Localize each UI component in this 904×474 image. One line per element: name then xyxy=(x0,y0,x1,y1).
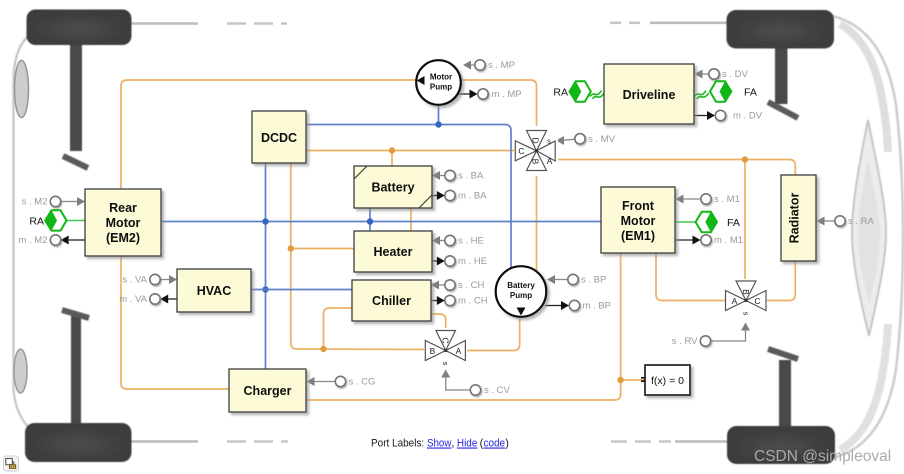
port s.BA xyxy=(432,170,484,181)
svg-text:s . M1: s . M1 xyxy=(714,194,740,205)
wire orange motor pump right to valve MV D xyxy=(461,80,537,131)
connector RA gem at rear motor xyxy=(29,210,66,230)
wire orange DCDC bottom to valve CV B xyxy=(291,163,426,350)
valve MV triangle D xyxy=(527,131,547,151)
wire orange rear-motor loop (motor pump left to charger left) xyxy=(121,80,416,389)
valve MV (4-way, near motor pump) xyxy=(514,126,558,176)
strut front-left xyxy=(63,43,88,168)
model browser badge icon xyxy=(4,456,19,471)
port s.HE xyxy=(432,235,484,246)
svg-text:s . CG: s . CG xyxy=(349,377,376,388)
svg-text:s . RA: s . RA xyxy=(848,216,875,227)
svg-text:A: A xyxy=(547,156,553,166)
svg-text:,: , xyxy=(451,438,454,450)
port s.CG xyxy=(307,376,376,387)
car body outline left (rear) xyxy=(14,29,48,442)
svg-text:B: B xyxy=(430,346,436,356)
BLOCKS xyxy=(29,60,816,412)
svg-text:s . BA: s . BA xyxy=(458,171,484,182)
car body outline right (front) xyxy=(828,15,903,459)
side pillar shape xyxy=(852,120,886,336)
svg-text:Chiller: Chiller xyxy=(372,294,411,308)
svg-text:m . CH: m . CH xyxy=(458,296,488,307)
svg-text:m . M1: m . M1 xyxy=(714,235,743,246)
port m.MP xyxy=(458,89,522,100)
svg-text:m . VA: m . VA xyxy=(119,294,147,305)
block Rear Motor (EM2) xyxy=(85,189,161,256)
port s.CV xyxy=(441,370,510,397)
block Chiller xyxy=(352,280,431,321)
wheel rear-right xyxy=(727,426,835,464)
PORTS xyxy=(18,60,874,396)
port s.VA xyxy=(122,274,177,285)
port m.M1 xyxy=(675,235,743,246)
block HVAC xyxy=(177,269,251,312)
svg-text:m . BA: m . BA xyxy=(458,191,487,202)
svg-text:Rear: Rear xyxy=(109,201,137,215)
wire green rear motor RA link xyxy=(66,220,85,222)
axle line rear-right xyxy=(611,440,728,443)
junction dot orange at radiator branch xyxy=(742,156,748,162)
wire orange front motor bottom to charger right xyxy=(306,253,621,400)
wire orange valve RV C to radiator bottom xyxy=(764,261,796,301)
svg-text:s: s xyxy=(547,137,551,146)
junction dot blue bus x370 xyxy=(367,218,373,224)
valve RV (3-way, near radiator) xyxy=(725,279,767,319)
wheel rear-left xyxy=(25,423,132,462)
wire green driveline FA zigzag xyxy=(695,91,709,100)
wire orange branch to chiller left xyxy=(324,308,353,349)
port m.BA xyxy=(432,190,487,201)
block Heater xyxy=(354,231,432,272)
svg-text:C: C xyxy=(441,337,451,343)
FOOTER xyxy=(4,438,892,472)
port s.CH xyxy=(431,280,485,291)
svg-text:s . HE: s . HE xyxy=(458,236,484,247)
port m.CH xyxy=(431,295,488,306)
svg-text:Battery: Battery xyxy=(507,281,535,290)
svg-text:s: s xyxy=(742,312,751,316)
svg-text:m . DV: m . DV xyxy=(733,111,763,122)
wire orange branch to heater left xyxy=(291,248,354,250)
svg-text:m . M2: m . M2 xyxy=(18,235,47,246)
block Battery xyxy=(354,166,432,208)
svg-text:s . RV: s . RV xyxy=(672,336,698,347)
valve MV triangle A xyxy=(537,141,556,161)
svg-text:Driveline: Driveline xyxy=(623,88,676,102)
svg-text:s . VA: s . VA xyxy=(122,275,147,286)
wire orange branch to fx block xyxy=(621,379,645,381)
port s.RA xyxy=(817,216,875,227)
svg-text:Radiator: Radiator xyxy=(788,193,802,244)
port s.MP xyxy=(463,60,515,71)
wire orange valve MV B to battery pump top xyxy=(536,171,538,273)
valve CV triangle C xyxy=(436,331,456,351)
port m.VA xyxy=(119,294,177,305)
svg-text:(EM1): (EM1) xyxy=(621,229,655,243)
svg-text:Pump: Pump xyxy=(510,291,532,300)
wire orange valve CV A to battery pump bottom xyxy=(465,318,519,351)
valve CV (3-way, below chiller) xyxy=(424,328,467,369)
port s.M1 xyxy=(676,194,740,205)
valve CV triangle A xyxy=(446,341,466,361)
port m.DV xyxy=(694,110,763,121)
wire green driveline RA zigzag xyxy=(590,91,604,100)
svg-text:s . MP: s . MP xyxy=(488,60,515,71)
connector RA gem at driveline xyxy=(553,81,590,101)
block Front Motor (EM1) xyxy=(601,187,675,253)
port s.MV xyxy=(556,134,616,145)
pump Motor Pump xyxy=(416,60,461,105)
axle line front-left xyxy=(131,22,287,25)
svg-text:s . CV: s . CV xyxy=(484,385,511,396)
svg-text:Hide: Hide xyxy=(457,438,478,450)
svg-text:f(x) = 0: f(x) = 0 xyxy=(651,375,684,387)
valve RV triangle A xyxy=(726,291,747,311)
wheel front-right xyxy=(727,10,835,49)
svg-text:D: D xyxy=(531,137,541,143)
windshield arc lower xyxy=(840,324,888,450)
svg-text:Charger: Charger xyxy=(244,384,292,398)
block Driveline xyxy=(604,64,694,124)
strut front-right xyxy=(768,46,798,118)
windshield arc upper xyxy=(840,24,888,152)
port s.BP xyxy=(547,274,606,285)
svg-text:A: A xyxy=(732,296,738,306)
junction dot orange at chiller branch xyxy=(320,346,326,352)
svg-text:C: C xyxy=(518,146,524,156)
strut rear-left xyxy=(62,310,89,424)
wire orange branch to valve RV B xyxy=(744,160,746,284)
pump Battery Pump xyxy=(496,266,547,317)
valve RV triangle C xyxy=(746,291,766,311)
wire blue battery bottom to heater top xyxy=(369,208,371,231)
wire orange DCDC right to valve MV C xyxy=(306,150,516,152)
svg-text:RA: RA xyxy=(29,216,44,228)
valve RV triangle B xyxy=(736,281,756,301)
connector FA gem at driveline xyxy=(710,81,757,101)
valve MV triangle B xyxy=(527,151,547,171)
svg-text:m . MP: m . MP xyxy=(492,89,522,100)
svg-text:CSDN @simpleoval: CSDN @simpleoval xyxy=(754,448,891,465)
wire blue main bus rear motor to front motor xyxy=(161,221,601,223)
wheel front-left xyxy=(27,10,132,46)
svg-text:Motor: Motor xyxy=(106,216,141,230)
junction dot blue under motor pump xyxy=(435,121,441,127)
svg-text:s . BP: s . BP xyxy=(581,275,606,286)
wire orange chiller right to valve CV C xyxy=(431,314,446,331)
svg-text:s . MV: s . MV xyxy=(588,134,616,145)
port labels link line xyxy=(371,438,509,450)
wire orange valve MV A to radiator top xyxy=(555,160,795,176)
svg-text:s . M2: s . M2 xyxy=(22,197,48,208)
block Charger xyxy=(229,369,306,412)
valve MV triangle C xyxy=(515,141,536,161)
svg-text:FA: FA xyxy=(744,87,757,99)
svg-text:m . BP: m . BP xyxy=(583,301,612,312)
svg-text:): ) xyxy=(505,438,509,450)
port m.M2 xyxy=(18,235,85,246)
port s.RV xyxy=(672,323,750,348)
svg-text:Battery: Battery xyxy=(371,181,414,195)
wire orange front motor bottom to valve RV A xyxy=(656,253,729,301)
port s.DV xyxy=(695,69,749,80)
svg-text:Motor: Motor xyxy=(621,214,656,228)
svg-text:B: B xyxy=(531,159,541,165)
block DCDC xyxy=(252,111,306,163)
junction dot orange at fx branch xyxy=(617,377,623,383)
strut rear-right xyxy=(768,349,798,427)
svg-text:RA: RA xyxy=(553,87,568,99)
svg-text:Heater: Heater xyxy=(374,245,413,259)
svg-text:Pump: Pump xyxy=(430,83,452,92)
wire blue DCDC bottom to charger top xyxy=(265,163,267,369)
svg-text:C: C xyxy=(754,296,760,306)
junction dot blue bus x265 xyxy=(262,218,268,224)
svg-text:HVAC: HVAC xyxy=(197,284,232,298)
block f(x)=0 xyxy=(641,365,690,395)
port s.M2 xyxy=(22,196,85,207)
wire orange battery bottom to heater top xyxy=(410,208,412,231)
svg-text:Motor: Motor xyxy=(430,73,452,82)
axle line front-right xyxy=(610,21,728,24)
junction dot orange at heater branch xyxy=(288,245,294,251)
junction dot blue hvac x265 xyxy=(262,286,268,292)
valve CV triangle B xyxy=(425,341,445,361)
left mirror top xyxy=(15,61,29,118)
junction dot orange at battery branch xyxy=(389,147,395,153)
svg-text:m . HE: m . HE xyxy=(458,256,487,267)
svg-text:s . CH: s . CH xyxy=(458,280,485,291)
svg-text:code: code xyxy=(484,438,506,450)
svg-text:A: A xyxy=(456,346,462,356)
wire blue HVAC right to chiller left xyxy=(251,289,352,291)
wire blue motor pump bottom drop xyxy=(438,105,440,125)
svg-text:FA: FA xyxy=(727,217,740,229)
svg-text:Front: Front xyxy=(622,199,655,213)
port m.BP xyxy=(545,300,611,311)
wire blue DCDC right to battery pump top-left xyxy=(306,125,511,273)
svg-text:s: s xyxy=(441,362,450,366)
svg-text:s . DV: s . DV xyxy=(722,69,749,80)
wire green front motor FA link xyxy=(675,221,695,223)
svg-text:B: B xyxy=(741,289,751,295)
svg-text:DCDC: DCDC xyxy=(261,131,297,145)
axle line rear-left xyxy=(131,440,288,443)
svg-text:Port Labels:: Port Labels: xyxy=(371,438,424,450)
connector FA gem at front motor xyxy=(696,212,740,232)
svg-text:Show: Show xyxy=(427,438,451,450)
port m.HE xyxy=(432,256,487,267)
left mirror bottom xyxy=(14,349,27,393)
block Radiator xyxy=(781,175,816,261)
wire orange branch to battery top xyxy=(391,151,393,167)
svg-text:(EM2): (EM2) xyxy=(106,231,140,245)
